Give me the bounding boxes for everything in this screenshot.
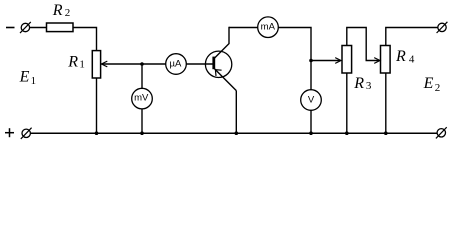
svg-text:1: 1 — [79, 58, 85, 70]
wire R1 bottom to bottom rail — [96, 78, 98, 133]
terminal bottom-right — [437, 129, 445, 137]
wire R2 to R1 top — [73, 28, 97, 51]
plus sign (E1 positive) — [5, 132, 14, 134]
svg-text:mA: mA — [261, 22, 276, 33]
svg-text:R: R — [67, 53, 78, 70]
emitter arrowhead (PNP) — [215, 70, 221, 76]
svg-text:R: R — [52, 2, 63, 19]
svg-text:2: 2 — [65, 7, 71, 19]
meter mV — [132, 88, 153, 109]
transistor emitter wire — [215, 69, 237, 91]
svg-text:E: E — [423, 75, 434, 92]
svg-text:4: 4 — [409, 54, 415, 66]
svg-text:µA: µA — [169, 59, 181, 70]
terminal top-right — [438, 23, 446, 31]
R1 wiper arrowhead — [102, 61, 108, 67]
node R4-bottom junction — [384, 131, 388, 135]
transistor VT1 circle — [205, 51, 231, 77]
node wiper/mV junction — [140, 62, 144, 66]
wire junction to mV meter — [141, 64, 143, 88]
meter uA — [166, 54, 187, 75]
meter V — [301, 90, 322, 111]
svg-text:V: V — [308, 95, 315, 106]
meter mA — [258, 17, 279, 38]
svg-text:3: 3 — [366, 80, 372, 92]
wire R4 top to terminal top-right — [386, 28, 438, 46]
wire V to bottom rail — [310, 110, 312, 133]
node R1-bottom junction — [95, 131, 99, 135]
minus sign (E1 negative) — [6, 27, 15, 29]
node riser/R3-wiper junction — [309, 59, 313, 63]
svg-text:R: R — [395, 48, 406, 65]
R3 wiper arrowhead — [335, 58, 341, 64]
wire emitter to bottom rail — [235, 91, 237, 134]
svg-text:2: 2 — [435, 82, 441, 94]
node emitter-bottom junction — [235, 131, 239, 135]
wire R3 bottom to bottom rail — [346, 73, 348, 133]
resistor R2 — [47, 23, 74, 32]
svg-text:mV: mV — [134, 93, 149, 104]
wire R1 wiper line — [102, 63, 166, 65]
wire terminal to R2 — [30, 27, 47, 29]
resistor R4 (rheostat) — [381, 46, 391, 74]
wire collector rail to mA — [229, 27, 258, 29]
wire R3 wiper — [311, 60, 341, 62]
transistor base bar — [212, 57, 215, 70]
resistor R3 (rheostat) — [342, 46, 352, 74]
svg-text:E: E — [19, 69, 30, 86]
node mV-bottom junction — [140, 131, 144, 135]
bottom rail wire — [30, 132, 437, 134]
wire mV to bottom rail — [141, 109, 143, 133]
node V-bottom junction — [309, 131, 313, 135]
wire R3 top to R4 wiper — [347, 28, 380, 61]
wire R4 bottom to bottom rail — [385, 73, 387, 133]
svg-text:1: 1 — [31, 75, 36, 87]
wire uA to transistor base — [186, 63, 213, 65]
R4 wiper arrowhead — [374, 58, 380, 64]
terminal bottom-left — [22, 129, 30, 137]
transistor collector wire up to top rail — [215, 27, 229, 58]
wire mA to right riser — [278, 28, 311, 90]
terminal top-left — [21, 23, 29, 31]
svg-text:R: R — [353, 75, 364, 92]
node R3-bottom junction — [345, 131, 349, 135]
resistor R1 (rheostat) — [92, 51, 100, 78]
